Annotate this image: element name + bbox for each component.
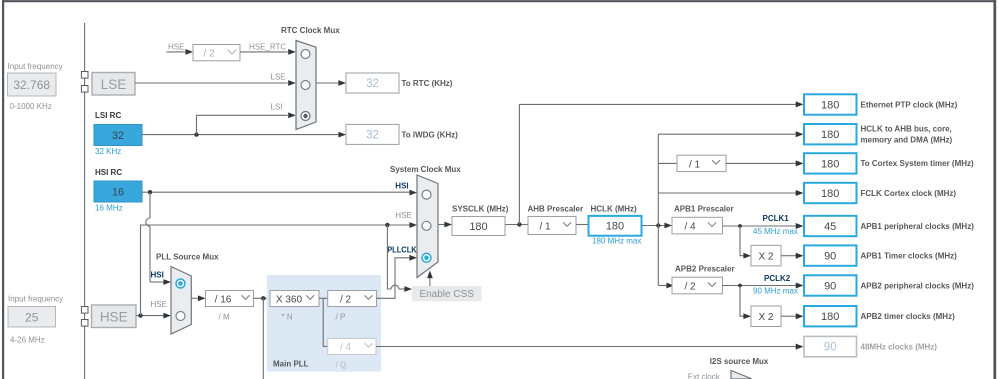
- svg-text:HSE: HSE: [168, 42, 184, 51]
- label System Clock Mux: [390, 165, 461, 174]
- svg-text:PLLCLK: PLLCLK: [387, 246, 417, 255]
- svg-text:90: 90: [824, 281, 836, 293]
- node HCLK (MHz): [589, 205, 642, 246]
- svg-text:/ 4: / 4: [684, 222, 696, 233]
- svg-text:/ 16: / 16: [215, 294, 232, 305]
- wire down to APB2 timer X2: [740, 286, 751, 320]
- svg-text:48MHz clocks (MHz): 48MHz clocks (MHz): [861, 342, 938, 351]
- svg-text:/ Q: / Q: [336, 361, 347, 370]
- multiplier X2 APB1: [751, 245, 781, 266]
- divider /P: [328, 291, 377, 322]
- node FCLK Cortex clock: [804, 183, 956, 203]
- svg-text:16: 16: [112, 187, 124, 199]
- svg-text:HCLK (MHz): HCLK (MHz): [591, 205, 638, 214]
- mux System Clock Mux: [417, 175, 438, 278]
- divider Cortex /1: [677, 155, 726, 171]
- svg-text:LSE: LSE: [271, 72, 286, 81]
- node Input frequency (LSE): [8, 62, 63, 111]
- svg-text:/ 2: / 2: [203, 48, 215, 59]
- wire X2 to APB1 timer box: [781, 253, 804, 259]
- svg-text:Enable CSS: Enable CSS: [419, 289, 474, 300]
- svg-text:90 MHz max: 90 MHz max: [753, 286, 798, 295]
- svg-text:System Clock Mux: System Clock Mux: [390, 165, 461, 174]
- svg-text:I2S source Mux: I2S source Mux: [710, 357, 769, 366]
- svg-text:HSE: HSE: [395, 211, 411, 220]
- wire branch down to /Q: [323, 298, 328, 346]
- node Ethernet PTP clock: [804, 94, 958, 114]
- svg-text:APB1 Prescaler: APB1 Prescaler: [674, 205, 734, 214]
- wire N to P: [319, 297, 328, 299]
- svg-text:HCLK to AHB bus, core,: HCLK to AHB bus, core,: [861, 125, 952, 134]
- oscillator HSI RC: [94, 168, 142, 213]
- label RTC Clock Mux: [281, 26, 340, 35]
- svg-text:HSI RC: HSI RC: [95, 168, 122, 177]
- svg-text:Input frequency: Input frequency: [8, 295, 63, 304]
- wire cortex divider to box: [726, 160, 804, 166]
- multiplier *N: [270, 291, 319, 322]
- junction SYSCLK branch: [517, 222, 521, 226]
- junction HCLK branch: [656, 223, 660, 227]
- wire FCLK row: [658, 190, 803, 196]
- oscillator HSE: [92, 305, 137, 328]
- wire HSE up to system clock mux: [141, 222, 418, 316]
- svg-text:Ethernet PTP clock (MHz): Ethernet PTP clock (MHz): [861, 100, 958, 109]
- svg-text:APB1 peripheral clocks (MHz): APB1 peripheral clocks (MHz): [861, 222, 975, 231]
- wire Q output to 48MHz clocks: [376, 344, 804, 350]
- oscillator LSI RC: [94, 111, 142, 156]
- node 48MHz clocks (disabled): [804, 336, 937, 356]
- wire SYSCLK output of mux: [438, 222, 452, 228]
- node APB2 timer clocks: [804, 306, 955, 326]
- svg-text:PCLK2: PCLK2: [764, 274, 791, 283]
- svg-text:memory and DMA (MHz): memory and DMA (MHz): [861, 136, 953, 145]
- divider APB1 Prescaler: [672, 205, 734, 234]
- wire HSE from box to PLL mux: [136, 300, 171, 319]
- multiplier X2 APB2: [751, 306, 781, 327]
- svg-text:90: 90: [824, 342, 837, 354]
- node To Cortex System timer: [804, 153, 974, 173]
- node To RTC (KHz): [346, 73, 453, 93]
- node HCLK to AHB bus: [804, 124, 953, 145]
- svg-text:25: 25: [25, 310, 39, 324]
- junction PLL input branch: [261, 296, 265, 379]
- wire to cortex divider row: [658, 162, 677, 164]
- svg-text:To Cortex System timer (MHz): To Cortex System timer (MHz): [861, 159, 975, 168]
- label PLL Source Mux: [156, 253, 219, 262]
- label I2S source Mux: [710, 357, 769, 366]
- junction HSE to CSS: [385, 223, 389, 227]
- mux PLL Source Mux: [171, 267, 191, 335]
- wire SYSCLK up to Ethernet PTP: [519, 101, 803, 224]
- wire down to APB1 timer X2: [740, 226, 751, 259]
- wire RTC mux output: [316, 80, 346, 86]
- divider HSE_RTC /2: [193, 45, 240, 61]
- wire /M output: [254, 297, 271, 299]
- svg-text:180: 180: [469, 221, 487, 233]
- wire HCLK to AHB bus row: [658, 131, 803, 137]
- junction LSI branch: [194, 132, 198, 136]
- node Input frequency (HSE): [8, 295, 63, 345]
- svg-text:* N: * N: [282, 313, 293, 322]
- wire HSI down to PLL source mux with hop: [146, 192, 171, 285]
- svg-text:Main PLL: Main PLL: [273, 360, 309, 369]
- node APB2 peripheral clocks: [804, 275, 974, 295]
- wire HSE_RTC to RTC mux: [240, 42, 296, 55]
- svg-text:/ 4: / 4: [340, 342, 352, 353]
- button Enable CSS: [412, 286, 482, 301]
- node HSE label at mux: [395, 211, 411, 220]
- wire LSE to RTC mux: [135, 72, 296, 86]
- junction HSE branch: [138, 313, 142, 317]
- wire APB2 row from bus: [658, 283, 674, 289]
- svg-text:32.768: 32.768: [13, 78, 50, 92]
- svg-text:90: 90: [824, 251, 836, 263]
- svg-text:APB2 timer clocks (MHz): APB2 timer clocks (MHz): [861, 312, 956, 321]
- svg-text:X 360: X 360: [276, 294, 303, 305]
- svg-text:4-26 MHz: 4-26 MHz: [10, 336, 45, 345]
- svg-text:/ 2: / 2: [684, 281, 696, 292]
- svg-text:To RTC (KHz): To RTC (KHz): [402, 79, 453, 88]
- svg-text:APB1 Timer clocks (MHz): APB1 Timer clocks (MHz): [861, 251, 958, 260]
- svg-text:RTC Clock Mux: RTC Clock Mux: [281, 26, 340, 35]
- svg-text:FCLK Cortex clock (MHz): FCLK Cortex clock (MHz): [861, 189, 957, 198]
- svg-text:0-1000 KHz: 0-1000 KHz: [10, 102, 52, 111]
- svg-text:HSI: HSI: [395, 182, 408, 191]
- node SYSCLK (MHz): [452, 205, 509, 236]
- svg-text:APB2 Prescaler: APB2 Prescaler: [675, 264, 735, 273]
- mux I2S source Mux (partial): [731, 371, 751, 379]
- svg-text:PCLK1: PCLK1: [763, 214, 790, 223]
- svg-text:/ 2: / 2: [340, 294, 352, 305]
- divider /Q (disabled): [328, 338, 376, 369]
- svg-text:HSE: HSE: [151, 300, 167, 309]
- junction HSI branch: [148, 190, 152, 194]
- svg-text:HSI: HSI: [151, 270, 164, 279]
- svg-text:180: 180: [821, 129, 839, 141]
- svg-text:Input frequency: Input frequency: [8, 62, 63, 71]
- svg-text:32: 32: [366, 129, 379, 141]
- wire HSI to system clock mux: [142, 190, 417, 196]
- svg-text:180: 180: [821, 311, 839, 323]
- panel Main PLL: [267, 275, 381, 372]
- mux RTC Clock Mux: [296, 41, 316, 130]
- wire Enable CSS up arrow: [427, 271, 433, 287]
- svg-text:APB2 peripheral clocks (MHz): APB2 peripheral clocks (MHz): [861, 281, 975, 290]
- node APB1 peripheral clocks: [804, 216, 974, 236]
- svg-text:180: 180: [821, 158, 839, 170]
- wire PCLK2: [723, 274, 804, 296]
- pin connector squares HSE: [81, 307, 88, 327]
- svg-text:45 MHz max: 45 MHz max: [753, 227, 798, 236]
- svg-text:HSE: HSE: [100, 309, 128, 324]
- node HSI label at mux: [395, 182, 408, 191]
- divider /M: [206, 291, 254, 322]
- svg-text:To IWDG (KHz): To IWDG (KHz): [402, 130, 459, 139]
- svg-text:16 MHz: 16 MHz: [95, 204, 123, 213]
- svg-text:SYSCLK (MHz): SYSCLK (MHz): [452, 205, 509, 214]
- wire PLL mux output to /M: [191, 295, 205, 301]
- node HSE stub to RTC divider: [167, 42, 194, 55]
- wire SYSCLK to AHB prescaler: [505, 224, 528, 226]
- pin connector squares LSE: [81, 72, 88, 93]
- node APB1 Timer clocks: [804, 245, 957, 265]
- wire vertical pin bus: [84, 23, 86, 379]
- wire PCLK1: [723, 214, 804, 236]
- wire HCLK vertical bus: [657, 134, 659, 285]
- svg-text:32: 32: [366, 78, 379, 90]
- svg-text:45: 45: [824, 221, 836, 233]
- svg-text:LSI: LSI: [271, 103, 283, 112]
- svg-text:180: 180: [821, 100, 839, 112]
- svg-text:AHB Prescaler: AHB Prescaler: [528, 205, 584, 214]
- wire LSI up to RTC mux: [197, 103, 296, 135]
- svg-text:180 MHz max: 180 MHz max: [592, 237, 641, 246]
- wire LSI to IWDG: [142, 132, 346, 138]
- svg-text:HSE_RTC: HSE_RTC: [249, 42, 286, 51]
- wire HCLK to APB1 prescaler: [642, 223, 673, 229]
- divider APB2 Prescaler: [672, 264, 735, 294]
- svg-text:180: 180: [821, 188, 839, 200]
- svg-text:/ M: / M: [219, 313, 230, 322]
- divider AHB Prescaler: [528, 205, 584, 235]
- wire PLLCLK from /P to system clock mux: [377, 246, 418, 299]
- svg-text:PLL Source Mux: PLL Source Mux: [156, 253, 219, 262]
- svg-text:X 2: X 2: [758, 312, 773, 323]
- svg-text:180: 180: [606, 221, 624, 233]
- junction PCLK2 to X2: [738, 284, 742, 288]
- wire HSE down to Enable CSS with hop: [387, 225, 412, 292]
- junction PCLK1 to X2: [738, 224, 742, 228]
- svg-text:32 KHz: 32 KHz: [95, 147, 121, 156]
- svg-text:/ P: / P: [336, 313, 346, 322]
- svg-text:/ 1: / 1: [539, 221, 551, 232]
- svg-text:/ 1: / 1: [689, 159, 701, 170]
- svg-text:X 2: X 2: [758, 252, 773, 263]
- node Ext clock: [688, 372, 721, 379]
- node To IWDG (KHz): [346, 124, 458, 144]
- svg-text:32: 32: [112, 130, 124, 142]
- svg-text:LSI RC: LSI RC: [95, 111, 121, 120]
- svg-text:Ext clock: Ext clock: [688, 372, 721, 379]
- wire X2 to APB2 timer box: [781, 313, 804, 319]
- oscillator LSE: [92, 73, 135, 96]
- svg-text:LSE: LSE: [101, 77, 127, 92]
- wire AHB to HCLK: [576, 224, 588, 226]
